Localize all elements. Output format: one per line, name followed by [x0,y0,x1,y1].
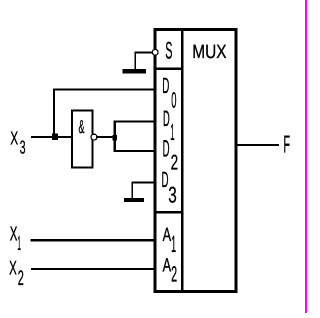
svg-text:A: A [163,225,172,246]
svg-text:3: 3 [20,137,26,158]
wire D2 arm [114,150,154,152]
svg-text:&: & [79,116,85,137]
wire junction vertical X3 to D0 [53,88,55,137]
wire X3 input [31,136,72,138]
wire D3 to ground [132,182,154,184]
svg-text:MUX: MUX [192,42,226,63]
svg-text:S: S [165,38,172,65]
svg-text:D: D [163,137,170,163]
magenta page border (right edge) [305,0,307,313]
svg-text:D: D [162,73,169,98]
wire gate output to junction [97,136,113,138]
wire bracket vertical D1-D2 [113,121,116,153]
wire F output [237,144,279,146]
svg-text:D: D [163,106,170,131]
inverter bubble on S pin [152,49,158,55]
gate U2 output bubble [91,134,97,140]
wire X1 input to A1 [31,239,154,242]
wire ground stub vertical (D3) [131,182,133,198]
wire ground stub vertical [134,52,136,70]
ground bar (D3) [124,198,144,202]
svg-text:1: 1 [170,119,174,145]
svg-text:X: X [9,257,17,279]
divider below S section [156,68,184,70]
node junction on X3 wire [52,133,58,140]
wire S pin to ground [135,51,152,53]
wire X2 input to A2 [31,268,154,270]
gate U2 AND-inverter box [72,111,93,168]
svg-text:A: A [163,255,172,276]
wire D0 horizontal [54,88,154,90]
svg-text:X: X [10,128,18,149]
svg-text:F: F [283,131,290,158]
svg-text:1: 1 [17,233,21,255]
svg-text:0: 0 [171,88,176,113]
MUX internal vertical divider [181,31,184,290]
MUX U1 box outline [155,30,236,292]
ground bar (S) [122,69,146,73]
svg-text:1: 1 [171,231,176,257]
svg-text:2: 2 [171,151,179,174]
wire D1 arm [114,120,154,122]
node junction after gate [112,135,117,141]
svg-text:3: 3 [168,183,177,208]
svg-text:2: 2 [18,267,24,290]
divider below D section [156,211,184,214]
svg-text:2: 2 [171,261,177,286]
